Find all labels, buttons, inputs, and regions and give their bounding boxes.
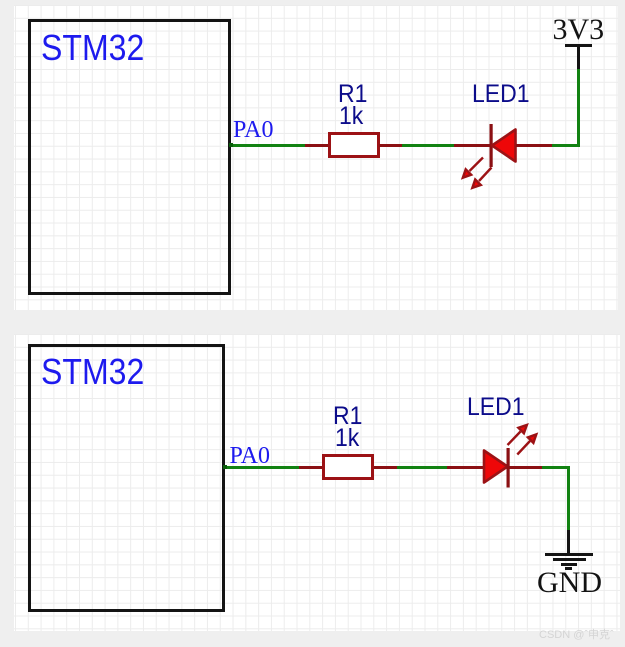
pin right of R1 (top)	[379, 144, 402, 147]
ground symbol bar 4	[565, 567, 572, 569]
LED LED1 symbol (bottom, pointing right)	[455, 415, 575, 505]
label LED1 (bottom)	[467, 395, 525, 420]
pin left of R1 (top)	[305, 144, 328, 147]
pin right of LED1 (bottom)	[509, 466, 542, 469]
pin name PA0 (top)	[233, 118, 273, 142]
power symbol 3V3 bar	[565, 44, 593, 47]
resistor R1 (top)	[328, 132, 380, 158]
pin right of LED1 (top)	[516, 144, 552, 147]
ground symbol bar 2	[553, 558, 586, 561]
cathode bar	[507, 448, 510, 488]
ground symbol bar 1	[545, 553, 593, 556]
emission arrow 1	[508, 425, 527, 445]
resistor R1 (bottom)	[322, 454, 374, 480]
schematic panel 1 background grid	[14, 5, 618, 310]
emission arrow 1	[463, 158, 483, 178]
emission arrow 2	[472, 168, 491, 188]
label R1 (bottom)	[333, 404, 362, 429]
value 1k (top)	[339, 104, 363, 129]
label R1 (top)	[338, 82, 367, 107]
wire PA0 to R1 (green, top)	[230, 144, 305, 147]
power symbol 3V3 stem	[577, 46, 580, 69]
pin left of R1 (bottom)	[299, 466, 322, 469]
wire 3V3 vertical (green, top)	[577, 69, 580, 147]
triangle	[484, 451, 508, 483]
emission arrow 2	[517, 434, 536, 454]
wire LED1 to 3V3 horizontal (green, top)	[552, 144, 580, 147]
schematic panel 2 background grid	[14, 334, 620, 631]
pin left of LED1 (top)	[454, 144, 491, 147]
label LED1 (top)	[472, 82, 530, 107]
wire LED1 to GND horizontal (green, bottom)	[542, 466, 570, 469]
MCU box STM32 (top)	[28, 19, 231, 295]
net label GND	[537, 568, 602, 598]
junction dot at PA0 pin (bottom)	[223, 465, 227, 469]
wire GND vertical (green, bottom)	[567, 466, 570, 530]
junction dot at PA0 pin	[229, 143, 233, 147]
wire R1 to LED1 (green, bottom)	[397, 466, 447, 469]
label STM32 (top)	[41, 30, 144, 66]
MCU box STM32 (bottom)	[28, 344, 225, 612]
ground symbol bar 3	[561, 563, 578, 566]
label STM32 (bottom)	[41, 354, 144, 390]
pin name PA0 (bottom)	[230, 444, 270, 468]
pin left of LED1 (bottom)	[447, 466, 484, 469]
pin right of R1 (bottom)	[374, 466, 397, 469]
value 1k (bottom)	[335, 426, 359, 451]
wire PA0 to R1 (green, bottom)	[224, 466, 299, 469]
triangle	[492, 130, 516, 162]
LED LED1 symbol (top, pointing left)	[440, 110, 560, 200]
wire R1 to LED1 (green, top)	[402, 144, 454, 147]
ground symbol stem	[567, 530, 570, 554]
cathode bar	[490, 124, 493, 167]
net label 3V3	[553, 15, 605, 45]
watermark CSDN	[539, 630, 614, 641]
